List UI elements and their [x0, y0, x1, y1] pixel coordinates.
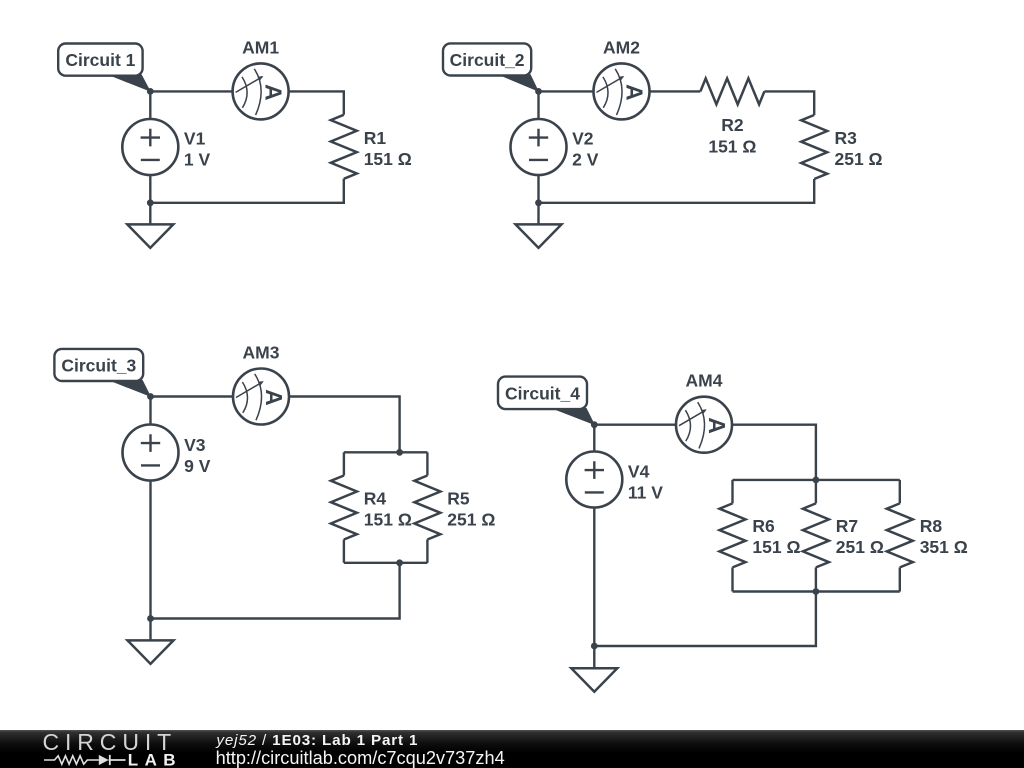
- svg-text:A: A: [622, 84, 648, 101]
- svg-text:151 Ω: 151 Ω: [708, 136, 756, 156]
- svg-text:R1: R1: [364, 128, 387, 148]
- svg-text:251 Ω: 251 Ω: [447, 510, 495, 530]
- svg-text:AM1: AM1: [242, 38, 279, 58]
- svg-text:A: A: [261, 84, 287, 101]
- svg-text:151 Ω: 151 Ω: [752, 537, 800, 557]
- svg-text:251 Ω: 251 Ω: [835, 149, 883, 169]
- svg-text:V1: V1: [184, 128, 206, 148]
- svg-text:9 V: 9 V: [184, 456, 211, 476]
- svg-text:R8: R8: [920, 516, 943, 536]
- svg-text:Circuit_2: Circuit_2: [450, 50, 525, 70]
- svg-text:1 V: 1 V: [184, 149, 211, 169]
- svg-text:Circuit_3: Circuit_3: [61, 356, 136, 376]
- svg-text:251 Ω: 251 Ω: [836, 537, 884, 557]
- svg-text:R5: R5: [447, 489, 470, 509]
- svg-text:AM3: AM3: [243, 343, 280, 363]
- svg-text:11 V: 11 V: [628, 482, 663, 502]
- svg-text:AM2: AM2: [603, 38, 640, 58]
- svg-text:R3: R3: [835, 128, 858, 148]
- svg-text:yej52 / 1E03: Lab 1 Part 1: yej52 / 1E03: Lab 1 Part 1: [215, 732, 418, 749]
- svg-text:R6: R6: [752, 516, 775, 536]
- svg-text:R7: R7: [836, 516, 858, 536]
- svg-text:R4: R4: [364, 489, 387, 509]
- svg-text:2 V: 2 V: [572, 149, 599, 169]
- svg-text:AM4: AM4: [686, 371, 723, 391]
- svg-text:LAB: LAB: [128, 751, 182, 768]
- svg-text:Circuit 1: Circuit 1: [65, 50, 135, 70]
- svg-text:151 Ω: 151 Ω: [364, 510, 412, 530]
- svg-text:V4: V4: [628, 461, 650, 481]
- svg-text:A: A: [261, 389, 287, 406]
- svg-text:A: A: [704, 417, 730, 434]
- svg-text:http://circuitlab.com/c7cqu2v7: http://circuitlab.com/c7cqu2v737zh4: [216, 748, 505, 768]
- svg-text:151 Ω: 151 Ω: [364, 149, 412, 169]
- svg-text:351 Ω: 351 Ω: [920, 537, 968, 557]
- svg-text:V3: V3: [184, 435, 206, 455]
- svg-text:Circuit_4: Circuit_4: [505, 384, 580, 404]
- svg-text:R2: R2: [721, 115, 744, 135]
- svg-text:V2: V2: [572, 128, 594, 148]
